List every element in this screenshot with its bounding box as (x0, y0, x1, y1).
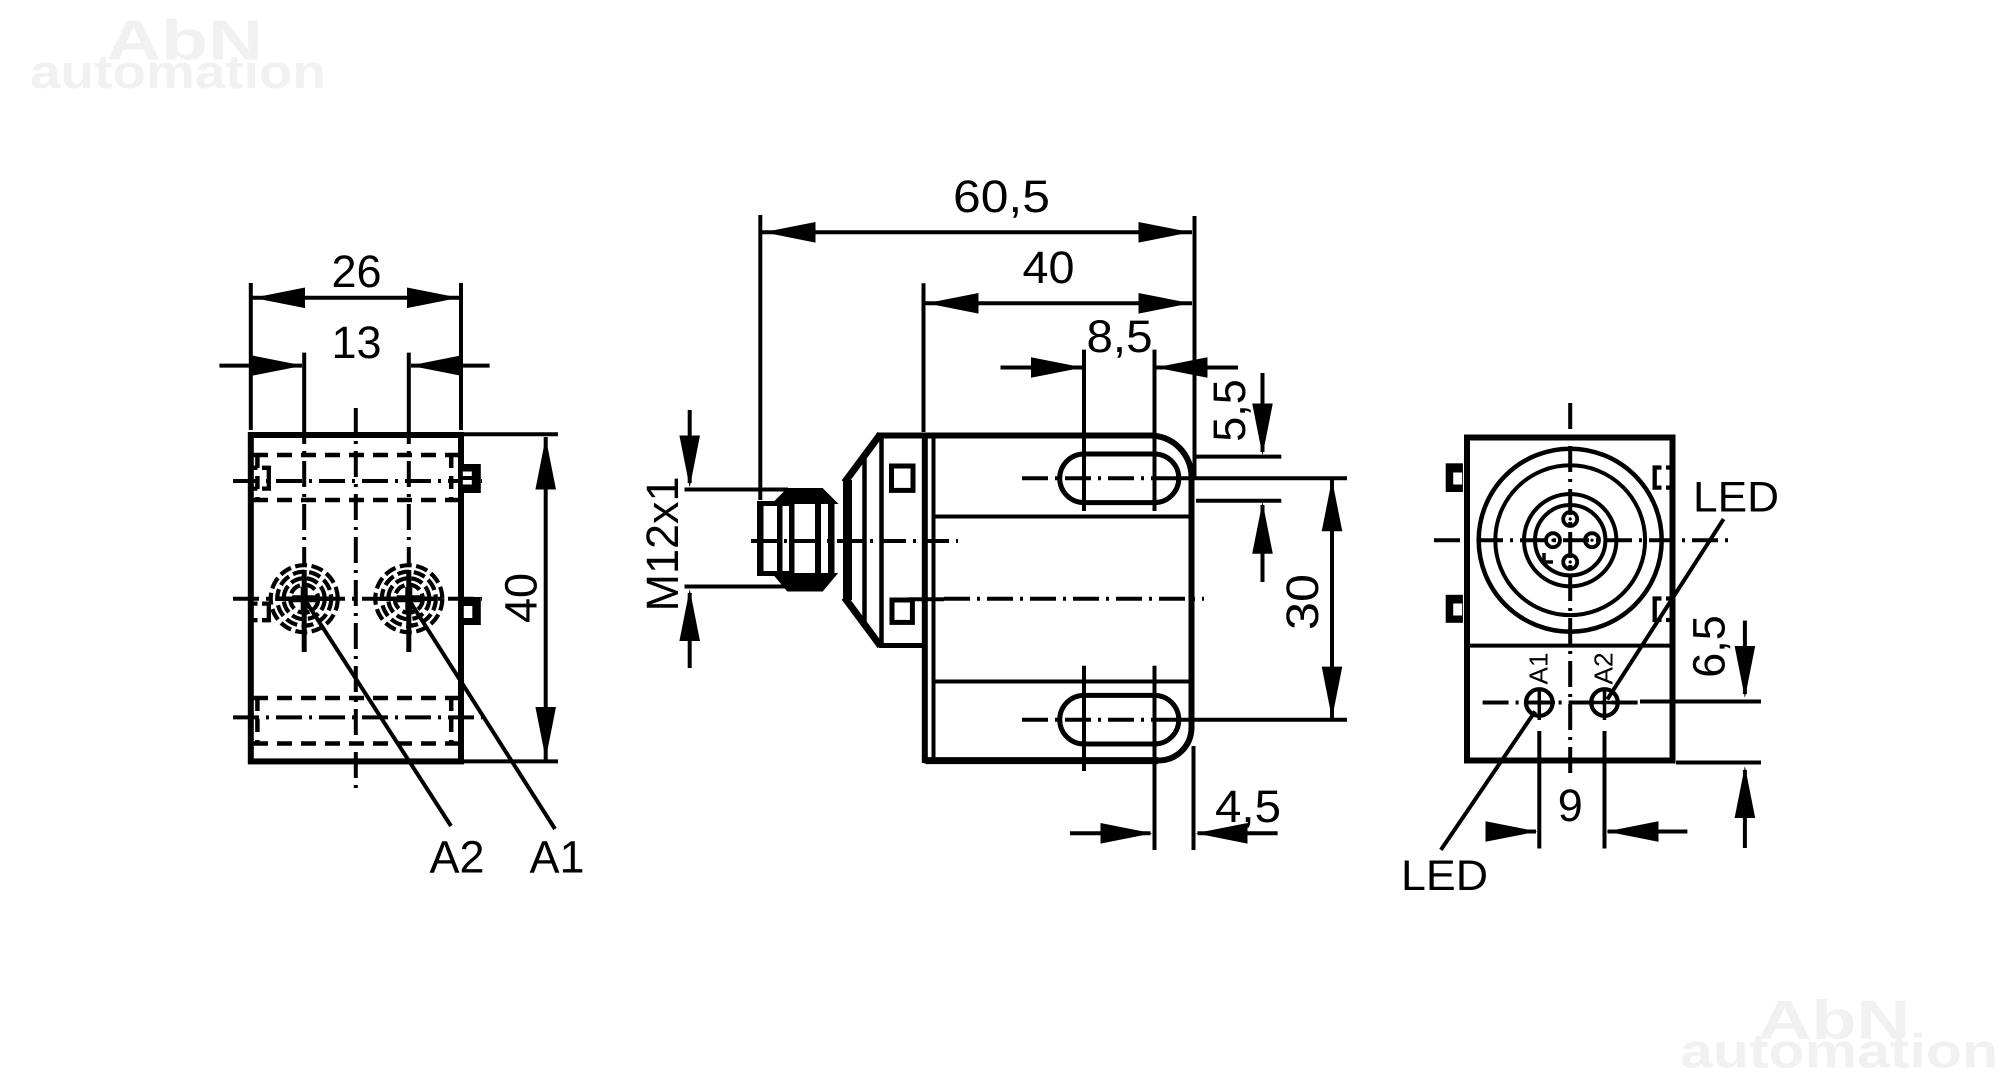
leader line A1 (409, 600, 555, 829)
right view: housing outline (1467, 438, 1673, 761)
right view: bottom edge extension (1676, 761, 1761, 765)
left view: vertical centerline (354, 408, 358, 790)
dimension 13: extension lines (304, 353, 409, 418)
M12 connector: thread inner line (777, 503, 783, 574)
M12 connector: nut bottom chamfered bar (775, 575, 835, 591)
svg-text:LED: LED (1693, 474, 1779, 522)
dimension 5,5: top arrow (1261, 373, 1265, 452)
middle view: connector axis centerline (751, 539, 958, 543)
left view: centerline top strip (233, 479, 482, 483)
left view: hole A2 centerline vertical (302, 418, 306, 566)
svg-text:automation: automation (1680, 1026, 1998, 1079)
left view: hidden edge dashed line bottom strip upper (253, 696, 459, 701)
svg-text:A1: A1 (1524, 653, 1554, 685)
dimension 9: right arrow (1608, 830, 1688, 834)
middle view: head cone inner edge (862, 457, 867, 624)
dimension M12x1: extension lines (685, 490, 791, 587)
middle view: upper mounting slot (1060, 454, 1179, 503)
middle view: head trapezoid left edge (843, 480, 852, 600)
svg-text:5,5: 5,5 (1204, 379, 1255, 442)
dimension 60,5: dimension line (762, 230, 1192, 234)
svg-text:13: 13 (331, 317, 381, 368)
middle view: upper slot centerline (1022, 476, 1180, 480)
middle view: body outline with rounded right corners (879, 435, 1192, 760)
right view: right edge clamp bracket lower (1653, 599, 1672, 621)
left view: hole A1 cross (381, 570, 437, 652)
middle view: inner horizontal edge lower (936, 680, 1190, 684)
middle view: body axis centerline (944, 597, 1204, 601)
dimension 8,5: left arrow (1001, 366, 1083, 370)
right view: connector pin top (1563, 512, 1577, 526)
left view: hole A2 dashed circles (271, 565, 338, 632)
leader line LED lower (1441, 711, 1535, 850)
left view: right edge tab upper (463, 464, 481, 493)
M12 connector: nut left face (789, 490, 795, 591)
dimension 40 left view: extension lines (464, 434, 558, 761)
middle view: lower slot end tick right / 4,5 extension (1153, 666, 1157, 850)
right view: connector pin bottom (1563, 555, 1577, 569)
middle view: bracket plate left edge (922, 433, 928, 763)
svg-text:9: 9 (1558, 780, 1583, 831)
dimension 13: dimension lines with outside arrows (219, 364, 302, 368)
middle view: body front face line (932, 435, 936, 761)
dimension 4,5: right arrow (1198, 831, 1278, 835)
left view: hole A2 cross (276, 570, 332, 652)
right view: connector recess circle 2 (1495, 465, 1645, 615)
dimension 40 left view: arrowheads (535, 438, 556, 490)
dimension 30: dimension line (1330, 480, 1334, 718)
svg-text:60,5: 60,5 (953, 171, 1050, 222)
svg-text:26: 26 (331, 246, 381, 297)
M12 connector: thread bottom edge (757, 571, 790, 576)
svg-text:40: 40 (495, 573, 546, 623)
left view: sensor front outline (251, 435, 461, 761)
svg-text:A2: A2 (429, 832, 484, 883)
right view: LED axis extension (1640, 700, 1761, 704)
left view: right edge tab lower (463, 597, 481, 625)
left view: hidden edge dashed line bottom strip lower (253, 741, 459, 746)
dimension 5,5: bottom arrow (1261, 505, 1265, 582)
svg-text:M12x1: M12x1 (637, 476, 688, 611)
dimension 4,5: extension line right (1192, 746, 1196, 850)
watermark AbN top-left (30, 9, 326, 99)
dimension 26: dimension line (251, 296, 461, 300)
middle view: plate front face (879, 434, 884, 648)
right view: connector pin right (1585, 533, 1599, 547)
middle view: head trapezoid top slant (845, 434, 881, 483)
right view: LED A2 indicator (1589, 689, 1620, 720)
svg-text:6,5: 6,5 (1684, 615, 1735, 678)
middle view: plate bottom edge (879, 643, 924, 648)
watermark AbN bottom-right (1680, 989, 1998, 1079)
right view: connector recess circle outer (1479, 449, 1662, 632)
left view: hole A1 dashed circles (375, 565, 442, 632)
right view: LED axis centerline (1483, 701, 1640, 705)
left view: left edge clamp bracket lower (253, 604, 272, 621)
dimension 26: arrowheads (253, 288, 305, 309)
dimension 8,5: right arrow (1157, 366, 1239, 370)
right view: vertical centerline (1568, 403, 1572, 778)
M12 connector: nut outer right edge (828, 501, 835, 576)
M12 connector: thread left face (757, 501, 764, 576)
right view: horizontal centerline (1434, 538, 1735, 542)
dimension M12x1: top arrow (688, 410, 692, 483)
right view: left edge tab upper (1446, 463, 1463, 492)
right view: LED A1 indicator (1524, 689, 1555, 720)
dimension 8,5: extension lines (1084, 350, 1155, 511)
dimension 40 middle: dimension line (925, 301, 1192, 305)
svg-text:LED: LED (1401, 852, 1488, 900)
right view: connector shell circle 3 (1524, 494, 1616, 586)
M12 connector: nut top chamfered bar (775, 490, 835, 503)
middle view: square hole lower (892, 600, 912, 622)
dimension 9: extension lines (1539, 731, 1604, 849)
svg-text:A2: A2 (1589, 653, 1619, 685)
left view: hidden edge dashed line top strip upper (253, 453, 459, 458)
middle view: lower mounting slot (1060, 695, 1179, 744)
dimension 6,5: top arrow (1743, 621, 1747, 694)
svg-text:A1: A1 (529, 832, 584, 883)
dimension 9: left arrow (1487, 830, 1536, 834)
middle view: inner horizontal edge upper (936, 515, 1190, 519)
dimension 6,5: bottom arrow (1743, 770, 1747, 848)
dimension 30: arrowheads (1322, 479, 1343, 531)
middle view: body bottom edge reinforcement (926, 757, 1158, 764)
dimension 40 left view: dimension line (544, 437, 548, 760)
middle view: body axis tick (908, 597, 944, 601)
dimension 30: extension line lower (1181, 718, 1347, 722)
left view: hole A1 centerline vertical (407, 418, 411, 566)
dimension M12x1: bottom arrow (688, 593, 692, 668)
dimension 40 middle: arrowheads (927, 293, 979, 314)
right view: left edge tab lower (1446, 595, 1463, 623)
leader line A2 (305, 600, 451, 826)
left view: hidden edge dashed line top strip lower (253, 498, 459, 503)
leader line LED upper (1607, 519, 1723, 699)
right view: divider edge (1469, 644, 1670, 648)
svg-text:40: 40 (1023, 242, 1075, 293)
dimension 5,5: extension lines (1181, 457, 1347, 501)
svg-text:4,5: 4,5 (1215, 781, 1281, 832)
left view: centerline bottom strip (233, 715, 482, 719)
left view: left edge clamp bracket upper (253, 468, 272, 489)
left view: hidden dashed vertical right (449, 455, 454, 744)
middle view: lower slot centerline (1022, 718, 1180, 722)
left view: centerline hole axis (233, 597, 482, 601)
middle view: square hole upper (892, 466, 914, 490)
right view: keying notch (1544, 553, 1553, 562)
dimension 4,5: left arrow (1070, 831, 1151, 835)
svg-text:30: 30 (1277, 574, 1328, 630)
dimension 60,5: arrowheads (764, 222, 816, 243)
dimension 60,5: extension lines (760, 215, 1194, 500)
svg-text:8,5: 8,5 (1087, 311, 1153, 362)
left view: hidden dashed vertical left (255, 455, 260, 744)
svg-text:automation: automation (30, 45, 326, 98)
M12 connector: thread top edge (757, 501, 790, 506)
dimension 40 middle: extension line (922, 283, 926, 432)
middle view: lower slot end tick left (1082, 666, 1086, 771)
M12 connector: nut right face (815, 490, 821, 591)
right view: right edge clamp bracket upper (1653, 468, 1672, 488)
dimension 26: extension lines (251, 283, 461, 430)
right view: connector shell circle 4 (1535, 505, 1605, 575)
right view: connector pin left (1546, 533, 1560, 547)
middle view: head trapezoid bottom slant (845, 598, 881, 647)
